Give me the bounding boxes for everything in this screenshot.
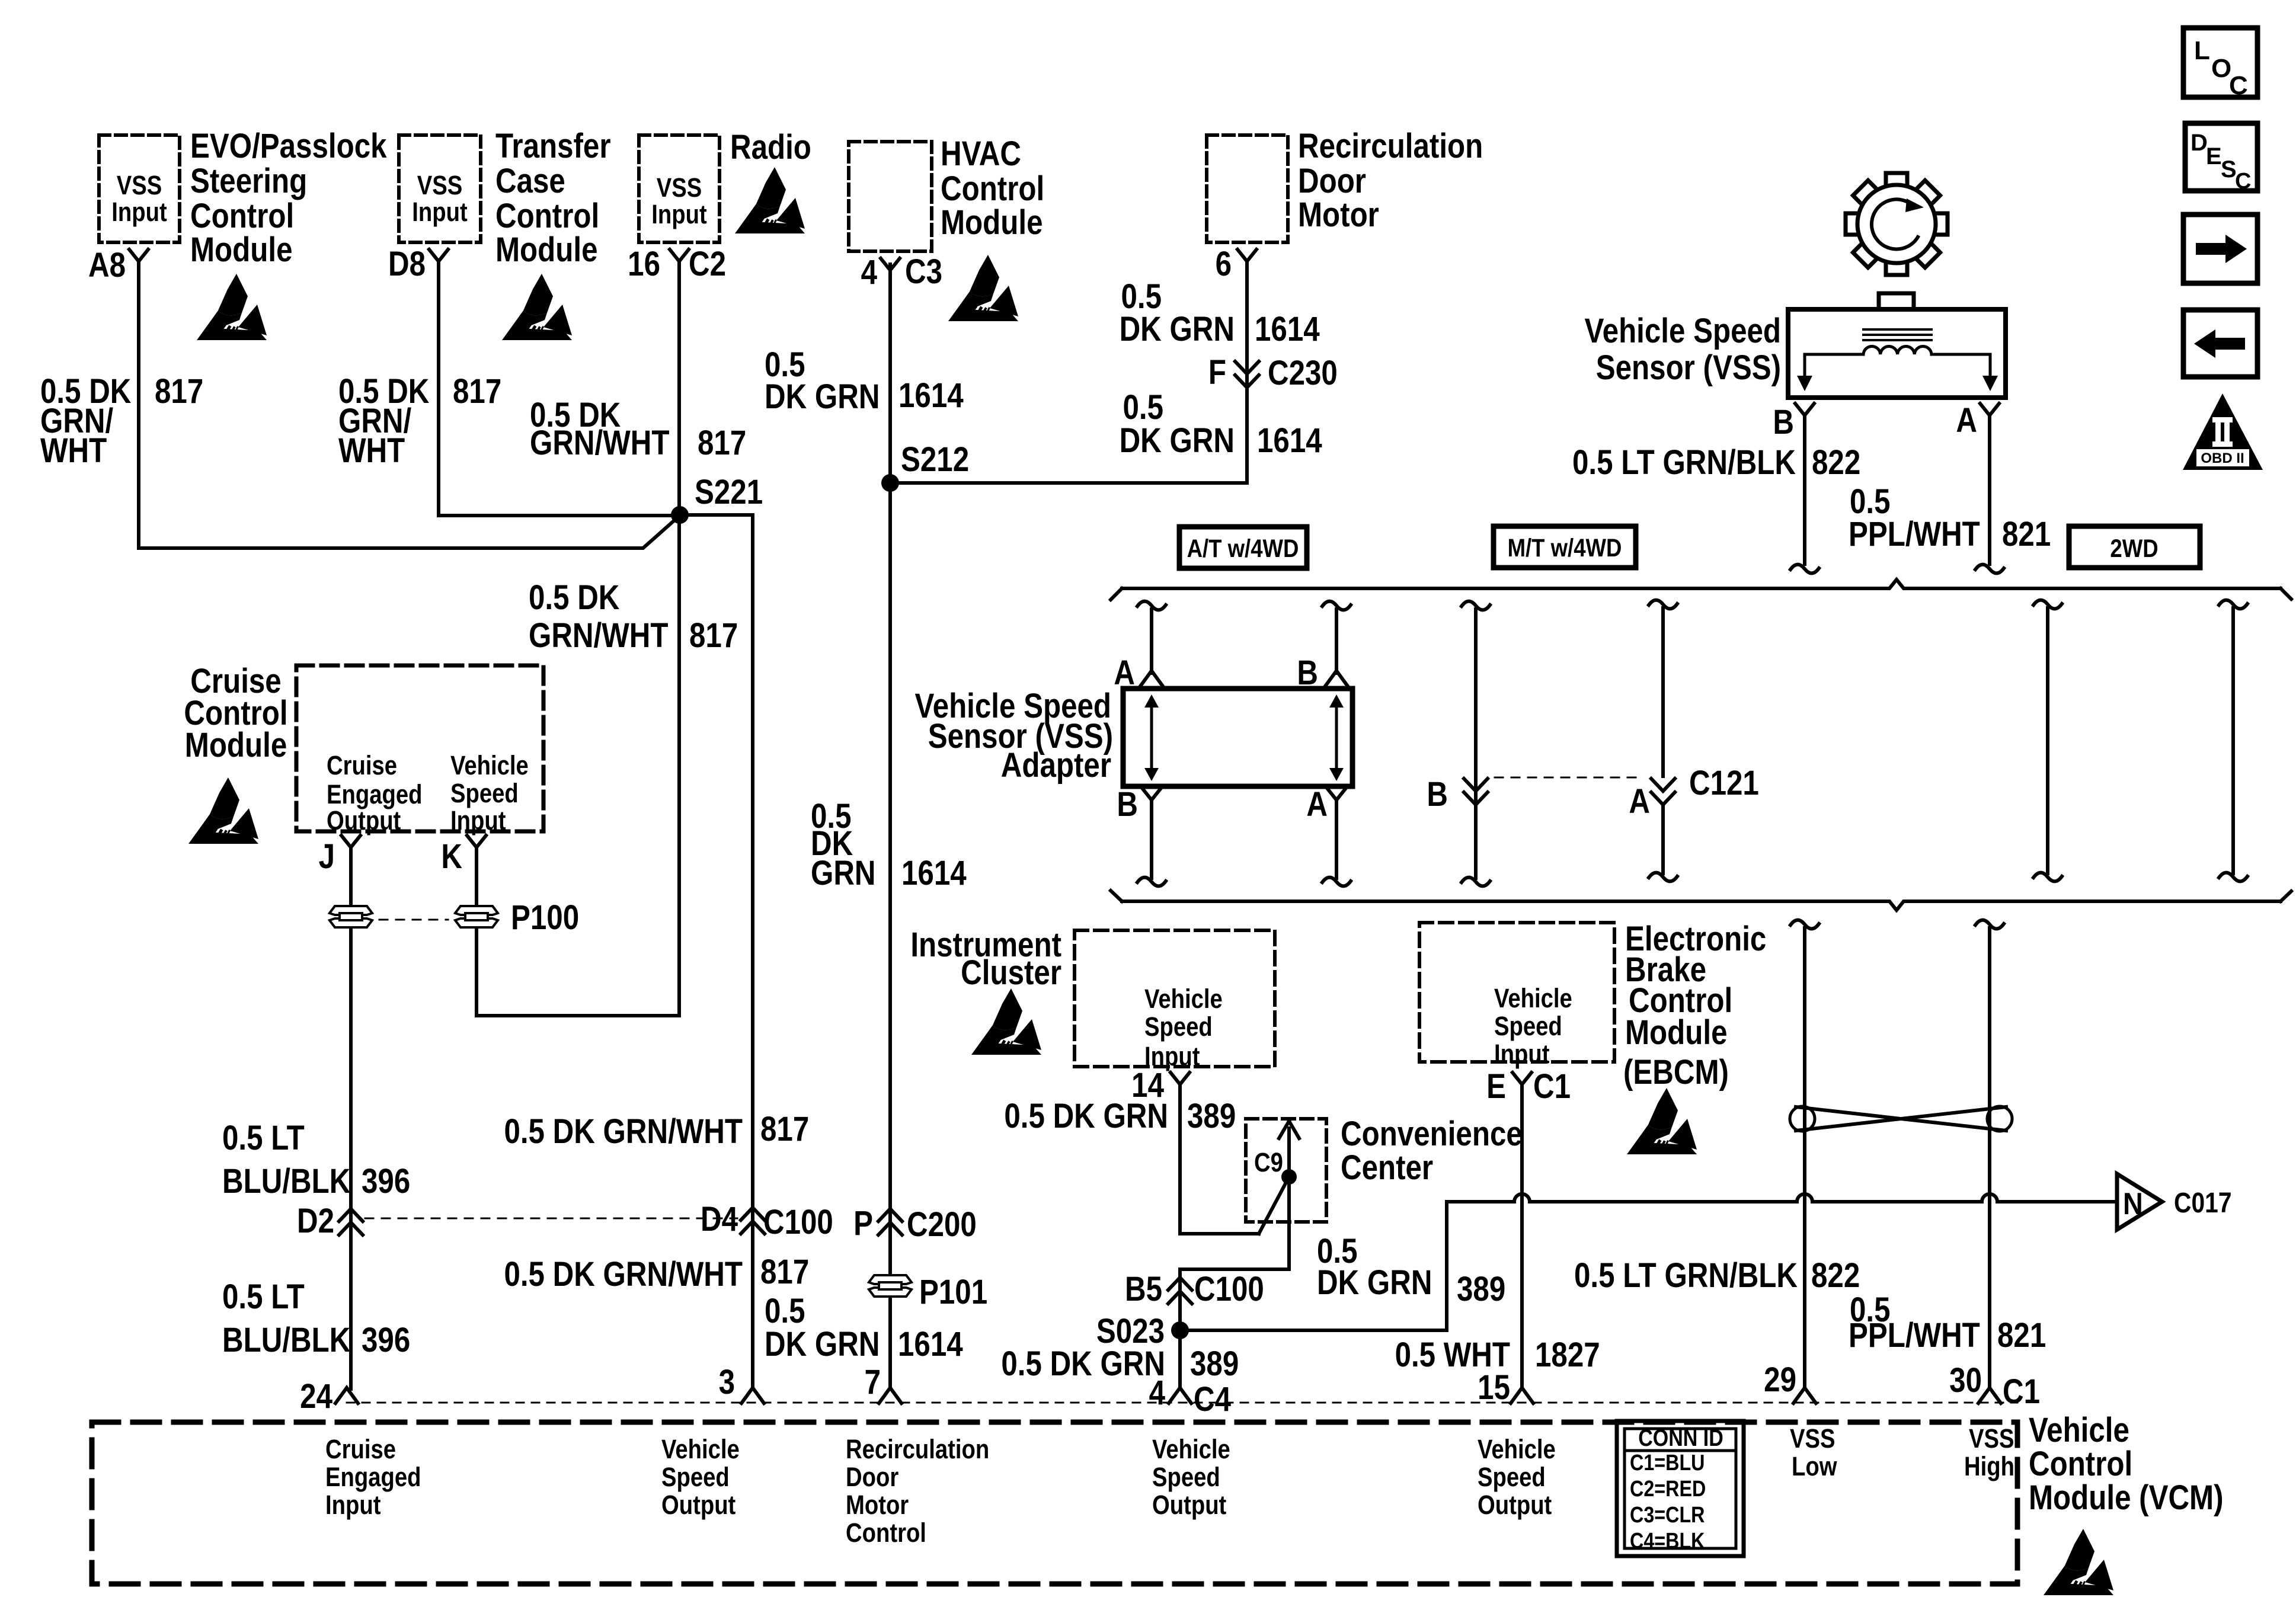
svg-text:VSS: VSS [1969,1423,2014,1454]
ESD symbol (Instrument Cluster) [971,988,1041,1055]
svg-text:B: B [1117,785,1138,824]
wire S221 to VCM pin 3 circuit 817 [680,515,753,1389]
svg-text:VSS: VSS [1790,1423,1835,1454]
connector C121 pin B [1464,779,1488,805]
svg-text:DK GRN: DK GRN [1120,421,1235,460]
svg-text:VSS: VSS [657,172,702,203]
svg-text:C017: C017 [2174,1188,2232,1219]
box Vehicle Speed Sensor (VSS) Adapter [1123,689,1352,786]
svg-text:D8: D8 [388,245,426,283]
wire break (2WD bottom) [2219,873,2247,882]
svg-text:C4: C4 [1194,1380,1231,1419]
connector P101 grommet [869,1275,912,1297]
svg-text:Cruise: Cruise [327,750,397,780]
svg-text:S212: S212 [901,440,969,479]
svg-text:Module: Module [941,203,1043,242]
wire break (adapter A top) [1137,601,1166,610]
svg-text:0.5 LT: 0.5 LT [222,1278,305,1316]
svg-text:0.5 LT GRN/BLK: 0.5 LT GRN/BLK [1574,1256,1798,1295]
reluctor gear icon (VSS) [1846,173,1948,275]
wire to adapter pin A [1150,609,1153,673]
svg-text:C2: C2 [689,245,726,283]
node C9 junction dot [1281,1169,1297,1185]
svg-text:Vehicle: Vehicle [1478,1434,1556,1464]
VSS coil [1863,346,1932,354]
twisted pair symbol [1796,1107,2006,1131]
svg-text:817: 817 [698,424,746,462]
svg-text:Output: Output [327,805,401,836]
icon DESC [2185,123,2257,191]
wire break (C121 bottom) [1649,873,1677,882]
svg-text:C9: C9 [1254,1147,1283,1177]
wire HVAC 4 C3 circuit 1614 to VCM pin 7 [888,264,892,1389]
dashed link P100 [379,919,448,921]
svg-text:Engaged: Engaged [325,1462,421,1492]
svg-text:Speed: Speed [1478,1462,1546,1492]
svg-text:C121: C121 [1689,764,1759,802]
ESD symbol (Cruise Control module) [188,777,258,844]
svg-text:S: S [2221,156,2237,183]
svg-text:C1: C1 [2003,1372,2040,1411]
adapter internal arrow [1150,703,1153,773]
svg-text:D2: D2 [297,1202,334,1240]
bottom rail left tick [1111,891,1122,901]
svg-text:GRN/WHT: GRN/WHT [529,616,669,655]
svg-text:A: A [1306,785,1328,824]
wire cluster 14 circuit 389 [1180,1088,1259,1234]
svg-text:GRN/WHT: GRN/WHT [530,424,670,462]
svg-text:HVAC: HVAC [941,135,1021,173]
svg-text:C3: C3 [905,252,942,291]
bottom option rail [1122,901,2281,910]
svg-text:WHT: WHT [338,431,405,470]
svg-text:Steering: Steering [190,162,307,200]
module box Cruise Control Module [296,665,543,831]
module box Instrument Cluster [1075,930,1275,1067]
module box Recirculation Door Motor [1207,135,1288,242]
svg-text:0.5 DK GRN/WHT: 0.5 DK GRN/WHT [504,1255,743,1294]
svg-text:K: K [441,837,462,876]
wire VSS A circuit 821 [1988,419,1991,564]
wire Radio 16 circuit 817 down to cruise [477,264,679,1016]
svg-text:High: High [1964,1451,2014,1481]
svg-text:396: 396 [362,1321,410,1359]
VSS sensor box [1788,309,2006,398]
svg-text:B5: B5 [1125,1270,1162,1308]
svg-text:0.5: 0.5 [765,1292,805,1330]
wire break (adapter B bottom) [1137,878,1166,886]
svg-text:Module (VCM): Module (VCM) [2029,1478,2224,1517]
svg-text:Recirculation: Recirculation [1298,127,1483,165]
svg-text:396: 396 [362,1162,410,1201]
svg-text:C200: C200 [907,1205,977,1244]
svg-text:Control: Control [190,197,294,235]
svg-text:Recirculation: Recirculation [846,1434,989,1464]
ESD symbol (VCM) [2044,1529,2113,1595]
svg-text:Input: Input [1494,1039,1550,1069]
connector C100 pin D4 [741,1208,765,1234]
wire VSS high circuit 821 to pin 30 [1988,928,1991,1389]
svg-text:C4=BLK: C4=BLK [1630,1529,1705,1554]
svg-text:DK GRN: DK GRN [765,1325,880,1363]
ESD symbol (EBCM) [1627,1088,1697,1154]
svg-text:VSS: VSS [117,170,162,200]
svg-text:Cruise: Cruise [325,1434,396,1464]
VSS mounting nub [1879,293,1914,309]
module box HVAC Control Module [849,142,932,251]
svg-text:16: 16 [628,245,660,283]
svg-text:Module: Module [495,231,597,269]
svg-text:EVO/Passlock: EVO/Passlock [190,127,387,165]
svg-text:1827: 1827 [1535,1336,1600,1374]
svg-text:S221: S221 [695,473,763,511]
svg-text:Output: Output [1152,1490,1226,1520]
svg-text:0.5 DK GRN/WHT: 0.5 DK GRN/WHT [504,1112,743,1151]
svg-text:817: 817 [453,372,501,411]
svg-text:Module: Module [1625,1013,1727,1052]
connector C100 pin B5 [1168,1278,1192,1304]
connector P100 (J wire grommet) [330,906,372,927]
svg-text:A/T w/4WD: A/T w/4WD [1187,534,1299,562]
svg-text:Speed: Speed [661,1462,730,1492]
svg-text:P100: P100 [511,898,579,937]
svg-text:Motor: Motor [1298,196,1379,234]
icon OBD II triangle [2183,393,2263,470]
svg-text:389: 389 [1190,1345,1239,1383]
svg-text:Vehicle: Vehicle [2029,1411,2129,1449]
splice S023 [1171,1321,1189,1339]
svg-text:817: 817 [760,1110,809,1148]
ESD symbol (Transfer Case module) [502,274,572,340]
wire break (C121 top) [1649,600,1677,609]
wire break (A) [1975,565,2004,574]
svg-text:PPL/WHT: PPL/WHT [1849,515,1980,553]
svg-text:0.5 LT: 0.5 LT [222,1119,305,1157]
svg-text:1614: 1614 [1257,421,1322,460]
wire D8 circuit 817 [439,264,680,516]
svg-text:Vehicle: Vehicle [1152,1434,1230,1464]
VSS core lines [1863,328,1932,331]
svg-text:822: 822 [1812,443,1860,482]
bottom rail right tick [2281,891,2291,901]
svg-text:Output: Output [661,1490,736,1520]
connector C100 pin D2 [339,1209,363,1235]
wire to B5 C100 [1180,1269,1289,1327]
svg-text:Low: Low [1792,1451,1837,1481]
svg-text:C230: C230 [1268,354,1338,392]
svg-text:Cluster: Cluster [961,953,1061,992]
svg-text:389: 389 [1187,1097,1236,1135]
wire VSS B circuit 822 [1803,419,1806,564]
svg-text:3: 3 [719,1363,735,1401]
wire break (VSS high top) [1975,920,2004,929]
svg-text:CONN ID: CONN ID [1638,1424,1723,1451]
module box EBCM [1419,923,1614,1062]
option box 2WD [2069,526,2200,568]
icon arrow right [2183,215,2257,283]
splice S212 [881,474,899,492]
VCM pin row dashed line [347,1402,2017,1404]
splice S221 [671,506,689,524]
svg-text:Control: Control [2029,1445,2132,1483]
svg-text:C: C [2235,169,2251,194]
svg-text:4: 4 [1149,1374,1165,1412]
svg-text:B: B [1427,775,1448,814]
svg-text:821: 821 [1997,1316,2046,1355]
wire S023 to C017 with hops [1447,1194,2113,1202]
connector C230 pin F [1235,361,1259,388]
module box Vehicle Control Module (VCM) [92,1422,2017,1584]
box Convenience Center [1246,1119,1326,1222]
icon LOC [2183,28,2257,97]
wire diagonal into convenience center [1259,1177,1289,1234]
svg-text:Module: Module [190,231,292,269]
connector P100 (K wire grommet) [455,906,498,927]
svg-text:D: D [2191,130,2208,156]
VSS lead A [1932,354,1990,379]
svg-text:A: A [1956,401,1977,440]
wire to adapter pin B [1335,609,1338,673]
svg-text:817: 817 [760,1253,809,1291]
svg-text:Adapter: Adapter [1001,746,1111,785]
svg-text:Control: Control [941,169,1044,208]
wire S023 branch to C017 [1180,1202,1447,1330]
svg-text:C3=CLR: C3=CLR [1630,1503,1705,1528]
wire break (2WD top) [2033,600,2062,609]
svg-text:4: 4 [861,253,877,292]
svg-text:GRN: GRN [811,854,876,892]
svg-text:OBD II: OBD II [2201,450,2244,466]
wire C121 A upper [1661,608,1665,776]
option box A/T w/4WD [1179,527,1307,568]
svg-text:P: P [853,1204,873,1243]
svg-text:Input: Input [325,1490,381,1520]
svg-text:1614: 1614 [901,854,967,892]
svg-text:Transfer: Transfer [495,127,611,165]
svg-text:C1=BLU: C1=BLU [1630,1451,1705,1475]
connector C200 pin P [878,1209,902,1235]
top rail left tick [1111,588,1122,600]
svg-text:Speed: Speed [450,778,519,808]
svg-text:Vehicle: Vehicle [1144,984,1223,1014]
svg-text:C: C [2229,71,2248,100]
svg-text:L: L [2194,36,2210,65]
svg-text:817: 817 [155,372,203,411]
svg-text:0.5 DK GRN: 0.5 DK GRN [1004,1097,1168,1135]
svg-text:J: J [319,837,335,876]
svg-text:Output: Output [1478,1490,1552,1520]
wire 2WD option [2046,608,2049,873]
wire VSS low circuit 822 to pin 29 [1803,928,1806,1389]
ESD symbol (HVAC module) [948,255,1018,321]
svg-text:C1: C1 [1533,1067,1571,1106]
wire break (adapter B top) [1322,601,1351,610]
svg-text:VSS: VSS [417,170,463,200]
svg-text:Motor: Motor [846,1490,909,1520]
svg-text:Case: Case [495,162,565,200]
ESD symbol (Radio) [735,167,805,233]
svg-text:1614: 1614 [1255,310,1320,348]
dashed link C121 [1495,777,1643,779]
top rail right tick [2281,588,2291,599]
svg-text:DK GRN: DK GRN [765,377,880,416]
adapter internal arrow [1335,703,1338,773]
svg-text:(EBCM): (EBCM) [1623,1053,1729,1092]
svg-text:BLU/BLK: BLU/BLK [222,1162,350,1201]
svg-text:N: N [2123,1187,2143,1221]
wire break (adapter A bottom) [1322,878,1351,886]
wire 2WD option [2231,608,2235,873]
wire C9 arrow stem [1287,1128,1291,1269]
svg-text:Input: Input [111,197,167,227]
svg-text:F: F [1208,353,1226,392]
svg-text:Vehicle: Vehicle [661,1434,740,1464]
wire adapter B down [1150,804,1153,878]
svg-text:0.5 LT GRN/BLK: 0.5 LT GRN/BLK [1572,443,1796,482]
wire EBCM E circuit 1827 to VCM pin 15 [1520,1088,1524,1389]
svg-text:C2=RED: C2=RED [1630,1477,1706,1502]
svg-text:Speed: Speed [1144,1012,1213,1042]
wire break (2WD top) [2219,600,2247,609]
svg-text:D4: D4 [701,1200,738,1238]
svg-text:1614: 1614 [898,376,964,415]
svg-text:2WD: 2WD [2110,534,2158,562]
svg-text:PPL/WHT: PPL/WHT [1849,1316,1980,1355]
svg-text:C100: C100 [763,1203,833,1241]
svg-text:B: B [1773,403,1794,441]
svg-text:821: 821 [2002,515,2051,553]
wire break (M/T top) [1462,601,1490,610]
svg-text:0.5 DK GRN: 0.5 DK GRN [1001,1345,1165,1383]
svg-text:Door: Door [846,1462,898,1492]
svg-text:Input: Input [412,197,468,227]
wire vehicle speed input K circuit 817 [475,851,478,1016]
wire cruise engaged output circuit 396 [349,851,353,1389]
svg-text:0.5 DK: 0.5 DK [529,578,620,617]
svg-text:Speed: Speed [1152,1462,1220,1492]
svg-text:DK GRN: DK GRN [1317,1263,1432,1302]
ESD symbol (EVO module) [197,274,267,340]
svg-text:Control: Control [495,197,599,235]
wire M/T w/4WD circuit [1474,609,1478,878]
wire break (M/T bottom) [1462,878,1490,886]
svg-text:BLU/BLK: BLU/BLK [222,1321,350,1359]
svg-text:Module: Module [185,726,287,764]
module box Transfer Case VSS Input [399,135,481,242]
svg-text:Sensor (VSS): Sensor (VSS) [1596,348,1781,387]
wire S023 to VCM pin 4 circuit 389 [1178,1330,1182,1389]
svg-text:15: 15 [1478,1368,1510,1407]
svg-text:6: 6 [1216,245,1232,283]
VSS lead B [1805,354,1863,379]
svg-text:Vehicle: Vehicle [1494,983,1572,1013]
svg-text:Input: Input [450,805,506,836]
connector C121 pin A [1651,779,1675,805]
wire break (B) [1790,565,1819,574]
option box M/T w/4WD [1494,526,1636,568]
svg-text:7: 7 [865,1363,881,1401]
dashed line D2 to D4 [365,1218,737,1219]
svg-text:Vehicle: Vehicle [450,750,529,780]
svg-text:WHT: WHT [40,431,107,470]
icon arrow left [2183,310,2257,377]
svg-text:29: 29 [1764,1361,1796,1399]
svg-text:822: 822 [1811,1256,1860,1295]
svg-text:C100: C100 [1194,1270,1264,1308]
svg-text:E: E [2206,143,2222,169]
svg-text:M/T w/4WD: M/T w/4WD [1508,534,1622,562]
wire break (2WD bottom) [2033,873,2062,882]
svg-text:24: 24 [300,1377,332,1416]
svg-text:Input: Input [651,199,707,229]
CONN ID table [1617,1421,1744,1556]
connector C017 arrow N [2117,1174,2162,1230]
svg-text:Center: Center [1341,1148,1433,1187]
svg-text:DK GRN: DK GRN [1120,310,1235,348]
wire A8 circuit 817 [139,264,680,548]
wire S212 to Recirculation Door Motor circuit 1614 [890,264,1247,483]
svg-text:30: 30 [1949,1361,1982,1400]
wire break (VSS low top) [1790,920,1819,929]
svg-text:Vehicle Speed: Vehicle Speed [1585,312,1781,350]
svg-text:1614: 1614 [898,1325,963,1363]
wire adapter A down [1335,804,1338,878]
svg-text:A8: A8 [88,246,126,284]
svg-text:0.5: 0.5 [1123,388,1163,427]
svg-text:389: 389 [1457,1270,1505,1308]
svg-text:Speed: Speed [1494,1011,1562,1041]
top option rail [1122,580,2281,588]
svg-text:Control: Control [846,1518,926,1548]
svg-text:A: A [1629,782,1650,821]
module box EVO/Passlock VSS Input [99,135,180,242]
svg-text:E: E [1486,1067,1506,1106]
svg-text:Door: Door [1298,162,1366,200]
svg-text:817: 817 [689,616,738,655]
svg-text:Convenience: Convenience [1341,1115,1523,1153]
svg-text:P101: P101 [919,1273,987,1311]
wire C121 A lower [1661,805,1665,873]
module box Radio VSS Input [639,135,720,242]
svg-text:Radio: Radio [730,128,811,167]
